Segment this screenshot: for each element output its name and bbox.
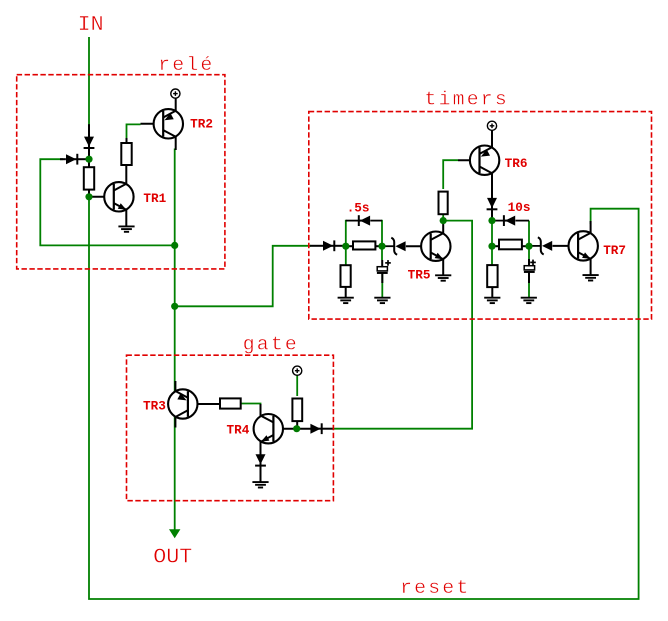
resistor R4 below node T1 [341,265,351,287]
svg-text:TR1: TR1 [143,191,166,206]
capacitor C2 polarized [524,266,534,270]
svg-text:10s: 10s [508,200,531,215]
node TR6 collector [488,217,495,224]
node T1 left timer [342,243,349,250]
node T2 left timer [378,243,385,250]
diode D8 before TR7 base [542,241,552,251]
transistor TR5 [421,232,450,261]
wire .5s branch right vertical [381,220,383,246]
transistor TR4 leads [274,428,313,430]
node A2 relay feedback junction [171,242,178,249]
dashed box rele [17,75,225,269]
svg-text:relé: relé [158,54,214,76]
diode D4 in .5s branch [358,220,363,222]
wire TR5 collector node right, down to gate output diode [332,221,472,429]
svg-text:TR5: TR5 [408,268,431,283]
wire node T3 down to resistor [491,246,493,266]
diode D1 relay feedback [73,158,78,160]
resistor R9 below node T3 [487,265,497,287]
diode D5 before TR5 base [395,241,405,251]
wire relay feedback: diode D1 anode left, down, right to node A2 [40,159,174,245]
transistor TR6 leads [458,159,480,161]
wire node T4 to zener D8 [529,245,540,247]
node T3 right timer [488,243,495,250]
resistor R6 above TR5 [439,192,448,215]
wire D5 to TR5 base [406,245,431,247]
transistor TR2 [154,109,183,138]
ground below capacitor C1 [374,297,390,299]
capacitor C1 polarized [377,267,387,271]
svg-text:TR7: TR7 [603,243,626,258]
node gate output [293,425,300,432]
transistor TR3 [168,389,197,418]
wire node T2 down to capacitor C1 [381,246,383,260]
wire node T1 down to resistor [345,246,347,266]
ground below TR7 [583,274,599,276]
wire 10s branch top [492,220,504,222]
transistor TR5 leads [442,221,444,234]
diode D2 on IN line [88,144,90,149]
dashed box timers [309,112,652,320]
wire .5s branch top [346,220,359,222]
transistor TR2 leads [141,123,164,125]
node A3 bus to timers [171,303,178,310]
wire TR3 base resistor to TR4 collector [241,404,261,413]
dashed box gate [127,355,334,501]
wire D8 to TR7 base [553,245,579,247]
wire IN/reset net: IN pin down left side, along bottom, up right side to TR7 collector [89,37,639,599]
resistor R3 .5s horizontal [353,241,375,249]
wire node T2 to zener D5 [382,245,394,247]
wire power to gate resistor R7 [296,375,298,396]
ground below TR1 [118,225,134,227]
svg-text:IN: IN [78,12,104,37]
diode D6 below TR6 [491,205,493,210]
wire TR6 collector node down to node T3 [491,221,493,247]
wire 10s branch right vertical [528,221,530,247]
power supply symbol above TR6 [487,121,496,130]
svg-text:.5s: .5s [347,200,370,215]
wire .5s branch left vertical [345,220,347,246]
resistor R2 TR1 collector [121,143,131,165]
wire node T4 down to capacitor C2 [528,246,530,260]
node TR5 collector [440,217,447,224]
resistor R1 on IN line [84,167,94,189]
wire node A3 to timers input diode [175,246,311,306]
node on IN line at D1 [85,156,92,163]
ground below diode D9 [252,481,268,483]
transistor TR3 leads [188,403,221,405]
transistor TR7 leads [590,221,592,233]
diode D9 below TR4 emitter [260,461,262,466]
svg-text:TR2: TR2 [190,116,213,131]
power supply symbol above TR2 [171,89,180,98]
svg-text:TR6: TR6 [505,156,528,171]
node TR1 base [85,193,92,200]
wire capacitor C2 to ground [528,272,530,298]
svg-text:timers: timers [425,88,509,110]
diode D7 in 10s branch [504,220,509,222]
transistor TR4 [254,414,283,443]
transistor TR7 [569,231,598,260]
node T4 right timer [525,243,532,250]
resistor R10 TR3 base [220,398,241,408]
ground below capacitor C2 [521,297,537,299]
transistor TR6 [470,146,499,175]
svg-text:TR3: TR3 [143,399,166,414]
transistor TR1 leads [90,196,114,198]
OUT arrow [169,529,180,538]
svg-text:gate: gate [243,334,299,356]
ground below resistor R4 [338,297,354,299]
wire main bus: TR2 collector down through gate TR3 to OUT [174,149,176,532]
svg-text:reset: reset [400,577,470,599]
svg-text:OUT: OUT [153,545,192,570]
power supply symbol above R7 [293,366,302,375]
ground below resistor R9 [484,297,500,299]
diode D10 gate output [318,428,323,430]
resistor R8 10s horizontal [499,240,522,250]
wire resistor R5 top to TR6 base [443,160,458,189]
resistor R7 gate vertical [292,399,302,422]
wire TR1 collector resistor to TR2 base [127,124,141,144]
ground below TR5 [435,274,451,276]
wire TR5 collector node up to resistor [442,215,444,221]
diode D3 timers input [330,245,335,247]
transistor TR1 [104,182,133,211]
wire capacitor C1 to ground [381,272,383,297]
svg-text:TR4: TR4 [227,423,250,438]
